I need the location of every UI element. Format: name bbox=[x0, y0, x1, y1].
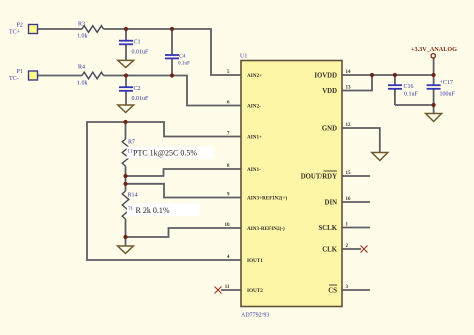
op IC U1 AD7792/93 bbox=[240, 54, 342, 319]
pin 3 CS bbox=[328, 285, 348, 295]
node TC+/C4 bbox=[170, 27, 174, 31]
svg-text:14: 14 bbox=[346, 70, 352, 75]
pin 2 CLK bbox=[322, 244, 348, 254]
pin 1 SCLK bbox=[318, 223, 348, 233]
node C16 rail bbox=[393, 73, 397, 77]
svg-text:AIN1-: AIN1- bbox=[247, 167, 261, 173]
node R14 top / AIN3+ bbox=[123, 182, 127, 186]
svg-text:AIN3+REFIN2(+): AIN3+REFIN2(+) bbox=[247, 195, 287, 202]
svg-text:16: 16 bbox=[346, 197, 352, 202]
wire GND pin to ground bbox=[342, 128, 380, 152]
svg-text:AIN2-: AIN2- bbox=[247, 104, 261, 110]
wire ground stem top right bbox=[433, 105, 435, 114]
node C17 rail bbox=[432, 73, 436, 77]
wire C4 top to TC+ bbox=[171, 29, 173, 55]
no-connect X on CLK bbox=[361, 246, 368, 253]
pin 9 AIN3+/REFIN2(+) bbox=[227, 193, 287, 202]
ground at GND pin bbox=[372, 153, 388, 161]
wire node to AIN3+ pin 9 bbox=[126, 184, 242, 198]
svg-text:IOVDD: IOVDD bbox=[314, 73, 337, 80]
ground top right bbox=[426, 114, 442, 122]
wire TC- from P1 to R4 bbox=[38, 75, 83, 77]
node VDD rail bbox=[370, 73, 374, 77]
pin 4 IOUT1 bbox=[227, 255, 263, 264]
svg-text:100uF: 100uF bbox=[440, 92, 456, 98]
wire IOUT1 long run to bias rail bbox=[87, 122, 241, 260]
svg-text:SCLK: SCLK bbox=[318, 225, 337, 232]
svg-text:12: 12 bbox=[346, 123, 352, 128]
wire CLK stub bbox=[342, 248, 361, 250]
pin 15 DOUT/RDY bbox=[301, 171, 351, 181]
wire C2 to ground bbox=[125, 91, 127, 106]
ground under R14 bbox=[118, 246, 134, 254]
svg-text:AIN1+: AIN1+ bbox=[247, 135, 262, 141]
svg-text:0.1uF: 0.1uF bbox=[178, 61, 190, 67]
wire C1 stub to TC+ bbox=[125, 29, 127, 41]
wire C16 top bbox=[394, 75, 396, 85]
pin 5 AIN2+ bbox=[227, 70, 262, 79]
pin 7 AIN1+ bbox=[227, 132, 262, 141]
no-connect X on IOUT2 bbox=[215, 287, 222, 294]
node C17 bottom / ground bbox=[432, 103, 436, 107]
wire C16 bottom bbox=[394, 89, 396, 106]
wire C17 bottom rail to ground bbox=[395, 89, 434, 106]
svg-text:1.0k: 1.0k bbox=[77, 34, 88, 40]
wire power port stem bbox=[433, 58, 435, 75]
svg-text:0.1uF: 0.1uF bbox=[404, 92, 419, 98]
svg-text:DOUT/RDY: DOUT/RDY bbox=[301, 174, 337, 181]
svg-text:PTC 1k@25C 0.5%: PTC 1k@25C 0.5% bbox=[133, 149, 197, 158]
wire ground node stem bbox=[125, 237, 127, 246]
wire PTC bottom to junctions bbox=[125, 166, 127, 191]
resistor R3 bbox=[77, 22, 104, 40]
pin 8 AIN1- bbox=[227, 164, 261, 173]
svg-text:AIN2+: AIN2+ bbox=[247, 73, 262, 79]
resistor R7 PTC bbox=[122, 139, 213, 166]
svg-text:P1: P1 bbox=[17, 69, 23, 75]
wire R14 bottom to ground node bbox=[125, 219, 127, 237]
wire DOUT/RDY stub bbox=[342, 175, 370, 177]
wire IOVDD to +3.3V rail bbox=[342, 74, 434, 76]
pin 16 DIN bbox=[325, 197, 351, 207]
node R14 bottom / ground bbox=[123, 235, 127, 239]
svg-text:C4: C4 bbox=[179, 54, 186, 60]
pin 12 GND bbox=[322, 123, 351, 133]
wire TC+ net R3 to AIN2+ pin 5 bbox=[104, 29, 242, 75]
wire bias rail to AIN1+ pin 7 bbox=[126, 122, 242, 137]
svg-text:+3.3V_ANALOG: +3.3V_ANALOG bbox=[411, 46, 457, 53]
ground under C2 bbox=[118, 105, 134, 113]
pin 6 AIN2- bbox=[227, 101, 261, 110]
svg-text:AD7792/93: AD7792/93 bbox=[241, 313, 269, 319]
svg-text:C1: C1 bbox=[134, 40, 141, 46]
wire IOUT2 stub bbox=[221, 289, 241, 291]
svg-text:TC-: TC- bbox=[9, 76, 19, 82]
svg-text:C16: C16 bbox=[404, 84, 414, 90]
svg-text:R7: R7 bbox=[128, 140, 135, 146]
svg-text:IOUT2: IOUT2 bbox=[247, 288, 263, 294]
connector P1 bbox=[9, 69, 38, 82]
wire node to AIN1- pin 8 bbox=[126, 169, 242, 176]
svg-text:R3: R3 bbox=[78, 22, 85, 28]
pin 11 IOUT2 bbox=[225, 285, 263, 294]
resistor R4 bbox=[77, 65, 104, 87]
svg-text:IOUT1: IOUT1 bbox=[247, 258, 263, 264]
connector P2 bbox=[9, 23, 38, 36]
node PTC bottom / AIN1- bbox=[123, 174, 127, 178]
svg-text:13: 13 bbox=[346, 86, 352, 91]
wire ground node to AIN3- pin 10 bbox=[126, 228, 242, 237]
capacitor C16 bbox=[388, 84, 419, 98]
svg-text:GND: GND bbox=[322, 126, 337, 133]
svg-text:CS: CS bbox=[328, 288, 337, 295]
power port +3.3V_ANALOG bbox=[411, 46, 457, 58]
svg-text:AIN3-REFIN2(-): AIN3-REFIN2(-) bbox=[247, 225, 285, 232]
node TC-/C2 bbox=[124, 73, 128, 77]
svg-text:10: 10 bbox=[225, 223, 231, 228]
pin 10 AIN3-/REFIN2(-) bbox=[225, 223, 286, 232]
capacitor C17 polarized bbox=[427, 80, 456, 98]
svg-text:11: 11 bbox=[225, 285, 230, 290]
ground under C1 bbox=[118, 60, 134, 67]
svg-text:DIN: DIN bbox=[325, 200, 338, 207]
svg-text:TC+: TC+ bbox=[9, 30, 21, 36]
capacitor C2 bbox=[119, 86, 149, 102]
node bias rail / PTC top bbox=[123, 120, 127, 124]
wire DIN stub bbox=[342, 201, 370, 203]
pin 14 IOVDD bbox=[314, 70, 351, 80]
capacitor C4 bbox=[165, 54, 190, 67]
svg-text:CLK: CLK bbox=[322, 247, 337, 254]
wire C1 to ground bbox=[125, 44, 127, 60]
wire C2 stub to TC- bbox=[125, 76, 127, 88]
svg-text:U1: U1 bbox=[240, 54, 247, 60]
pin 13 VDD bbox=[322, 86, 351, 96]
node TC-/C4 bbox=[170, 73, 174, 77]
svg-text:15: 15 bbox=[346, 171, 352, 176]
wire C17 top bbox=[433, 75, 435, 85]
resistor R14 bbox=[122, 191, 200, 219]
wire VDD up to rail bbox=[342, 75, 372, 91]
svg-text:71: 71 bbox=[128, 207, 134, 212]
node TC+/C1 bbox=[124, 27, 128, 31]
svg-text:+C17: +C17 bbox=[440, 80, 453, 86]
wire CS stub bbox=[342, 289, 370, 291]
svg-text:R 2k 0.1%: R 2k 0.1% bbox=[136, 206, 170, 215]
wire TC- net R4 to AIN2- pin 6 bbox=[104, 76, 242, 106]
wire C4 bottom to TC- bbox=[171, 58, 173, 75]
svg-text:R4: R4 bbox=[78, 65, 85, 71]
capacitor C1 bbox=[119, 40, 149, 56]
svg-text:R14: R14 bbox=[128, 193, 138, 199]
svg-text:P2: P2 bbox=[17, 23, 23, 29]
svg-text:0.01uF: 0.01uF bbox=[132, 96, 150, 102]
svg-text:VDD: VDD bbox=[322, 88, 337, 95]
svg-text:0.01uF: 0.01uF bbox=[132, 50, 150, 56]
wire SCLK stub bbox=[342, 227, 370, 229]
svg-text:1.0k: 1.0k bbox=[77, 81, 88, 87]
wire rail to PTC top bbox=[125, 122, 127, 139]
wire TC+ from P2 to R3 bbox=[38, 28, 83, 30]
svg-text:C2: C2 bbox=[134, 86, 141, 92]
